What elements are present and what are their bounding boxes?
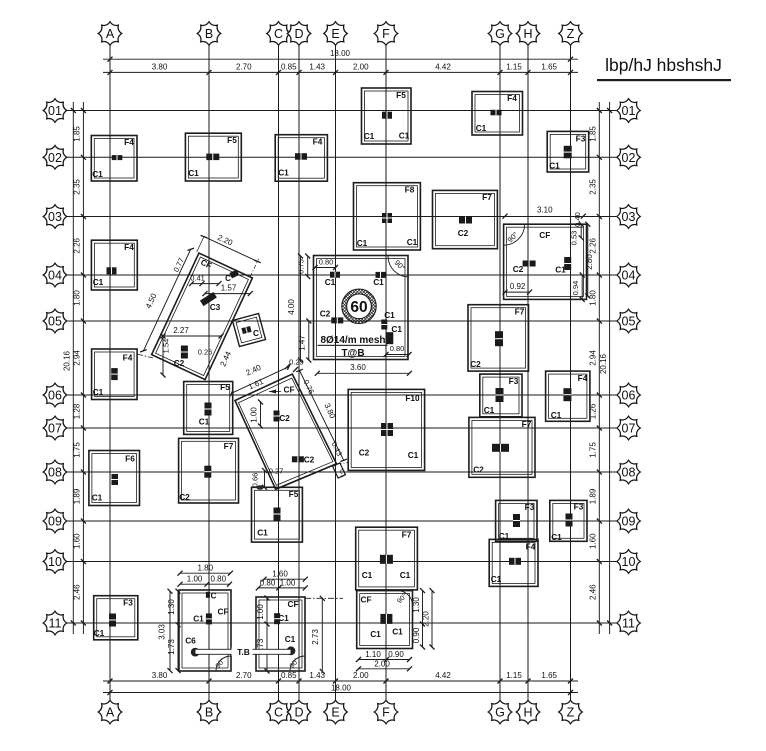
svg-text:lbp/hJ hbshshJ: lbp/hJ hbshshJ (605, 55, 722, 75)
dimension 2.20 right of F/11 footing (431, 591, 433, 647)
grid line axis D vertical (298, 46, 300, 701)
svg-text:0.94: 0.94 (571, 281, 580, 296)
svg-text:2.00: 2.00 (374, 659, 390, 668)
svg-text:2.26: 2.26 (73, 237, 82, 253)
column C2 at B/07-08 (204, 466, 211, 478)
column C1 at A/11 (109, 614, 116, 627)
axis bubble C top (267, 22, 291, 46)
svg-text:09: 09 (622, 515, 636, 529)
svg-text:1.54: 1.54 (162, 339, 171, 354)
footing CF at F/11 (357, 591, 413, 649)
svg-text:C1: C1 (370, 629, 381, 639)
axis bubble 05 left (43, 309, 67, 333)
dimension 0.92 (505, 291, 530, 293)
pile circle C1 (287, 646, 296, 655)
svg-text:H: H (523, 706, 532, 720)
svg-text:D: D (294, 706, 303, 720)
svg-text:Z: Z (567, 27, 575, 41)
dimension 0.80 bottom-right of mesh footing (386, 354, 409, 356)
grid line axis 08 horizontal (67, 471, 617, 473)
footing F6 at A/08 (89, 451, 140, 506)
footing CF mesh at E-F/04-05 (314, 256, 409, 360)
svg-text:F10: F10 (405, 393, 420, 403)
column C1 at G/06 (496, 388, 504, 402)
svg-text:2.73: 2.73 (311, 629, 320, 645)
svg-text:1.89: 1.89 (73, 488, 82, 504)
column C1 right in mesh footing (381, 320, 387, 330)
svg-text:09: 09 (48, 515, 62, 529)
svg-text:0.29: 0.29 (289, 357, 304, 366)
svg-text:C1: C1 (188, 168, 199, 178)
dimension chain left overall 20.16 (62, 102, 76, 634)
dimension 3.80 along quad right edge (296, 369, 347, 461)
column C1 at A/08 (112, 474, 119, 485)
footing F3 at Z/09 (550, 500, 587, 541)
svg-text:C: C (274, 706, 283, 720)
dash-dot extension from C-D footing corner (305, 597, 343, 599)
svg-text:1.60: 1.60 (272, 570, 288, 579)
grid line axis H vertical (527, 46, 529, 701)
column C2 upper in quad footing (274, 411, 280, 422)
svg-text:04: 04 (48, 269, 62, 283)
svg-text:G: G (495, 27, 505, 41)
column C2 in CF footing (523, 261, 536, 267)
footing F4 at D/02 (275, 135, 327, 182)
svg-text:20.16: 20.16 (599, 353, 608, 374)
footing F5 at B/02 (185, 133, 241, 181)
footing F8 at F/03 (354, 183, 421, 250)
title text lbp/hJ hbshshJ (597, 55, 731, 81)
axis bubble 11 right (617, 611, 641, 635)
svg-text:C1: C1 (400, 570, 411, 580)
axis bubble 02 right (617, 146, 641, 170)
footing F5 at F/01 (362, 88, 412, 144)
svg-text:F5: F5 (220, 382, 230, 392)
column C1 at Z/06 (563, 388, 571, 401)
axis bubble G top (488, 22, 512, 46)
svg-text:1.89: 1.89 (589, 488, 598, 504)
svg-text:F5: F5 (396, 90, 406, 100)
grid line axis 04 horizontal (67, 274, 617, 276)
svg-text:1.60: 1.60 (589, 533, 598, 549)
tie beam T.B between pile circles (195, 647, 291, 657)
svg-text:C1: C1 (551, 410, 562, 420)
svg-text:F4: F4 (313, 137, 323, 147)
svg-text:1.47: 1.47 (297, 335, 306, 351)
axis bubble F top (374, 22, 398, 46)
footing F7 at F/09-10 (356, 527, 418, 590)
svg-text:3.60: 3.60 (350, 363, 366, 372)
dimension 1.73 in C-D footing (266, 624, 268, 671)
dimension 2.80 (587, 224, 589, 296)
svg-text:C2: C2 (470, 359, 481, 369)
svg-text:0.27: 0.27 (269, 467, 284, 476)
grid line axis 11 horizontal (67, 622, 617, 624)
axis bubble 06 right (617, 383, 641, 407)
svg-text:2.00: 2.00 (353, 671, 369, 680)
axis bubble Z top (559, 22, 583, 46)
dimensions 1.00 0.80 above B footing (180, 583, 230, 585)
svg-text:0.80: 0.80 (260, 578, 276, 587)
svg-text:C1: C1 (476, 123, 487, 133)
svg-text:H: H (523, 27, 532, 41)
svg-text:2.94: 2.94 (73, 350, 82, 366)
svg-text:1.00: 1.00 (187, 575, 203, 584)
dimension 0.75 (307, 256, 309, 277)
svg-text:B: B (205, 27, 213, 41)
grid line axis Z vertical (570, 46, 572, 701)
svg-text:0.80: 0.80 (390, 344, 405, 353)
svg-text:3.03: 3.03 (158, 624, 167, 640)
svg-text:C2: C2 (320, 309, 331, 319)
axis bubble 10 left (43, 550, 67, 574)
svg-text:C1: C1 (92, 169, 103, 179)
svg-text:C1: C1 (549, 161, 560, 171)
tilted footing CF rotated 25deg (152, 253, 253, 379)
svg-text:F: F (382, 706, 390, 720)
column C1 top-left in mesh footing (330, 272, 340, 278)
svg-text:0.85: 0.85 (281, 671, 297, 680)
svg-text:C2: C2 (473, 465, 484, 475)
svg-text:C1: C1 (399, 131, 410, 141)
svg-text:11: 11 (49, 617, 62, 631)
svg-text:C1: C1 (325, 277, 336, 287)
axis bubble 01 left (43, 99, 67, 123)
svg-text:C1: C1 (193, 614, 204, 624)
mesh note text (318, 335, 388, 359)
footing F7 at G/03 (433, 190, 498, 248)
svg-text:2.70: 2.70 (236, 62, 252, 71)
svg-text:2.26: 2.26 (589, 237, 598, 253)
column C1 top-right in mesh footing (376, 272, 386, 278)
svg-text:0.85: 0.85 (281, 62, 297, 71)
svg-text:T.B: T.B (237, 647, 250, 657)
svg-text:4.42: 4.42 (435, 671, 451, 680)
svg-text:C1: C1 (551, 532, 562, 542)
svg-text:1.15: 1.15 (506, 62, 522, 71)
svg-text:2.94: 2.94 (589, 350, 598, 366)
axis bubble G bottom (488, 700, 512, 724)
grid line axis C vertical (278, 46, 280, 701)
footing F3 at Z/02 (547, 131, 589, 172)
svg-text:CF: CF (283, 385, 294, 395)
footing F4 at A/04 (91, 240, 137, 290)
svg-text:0.40: 0.40 (573, 212, 582, 227)
svg-text:3.80: 3.80 (152, 671, 168, 680)
axis bubble E top (324, 22, 348, 46)
svg-text:C1: C1 (392, 627, 403, 637)
svg-text:F7: F7 (224, 441, 234, 451)
dimension 2.73 right of C-D footing (321, 598, 323, 671)
column C2 lower in quad footing (292, 456, 304, 462)
svg-text:2.46: 2.46 (73, 584, 82, 600)
svg-text:C1: C1 (491, 574, 502, 584)
axis bubble F bottom (374, 700, 398, 724)
dimension 1.00 in quad footing (250, 400, 264, 429)
dimensions 1.10 0.90 below F/11 footing (359, 659, 410, 661)
column C2 in tilted footing (181, 346, 188, 359)
small rotated column box at quad corner near F10 (333, 463, 346, 478)
dimension 2.40 (230, 363, 290, 397)
dimension 3.03 left of B footing (169, 591, 171, 670)
svg-text:F8: F8 (405, 185, 415, 195)
svg-text:1.60: 1.60 (73, 533, 82, 549)
axis bubble C bottom (267, 700, 291, 724)
svg-text:0.53: 0.53 (569, 231, 578, 246)
svg-text:08: 08 (622, 466, 636, 480)
90 degree arc in C-D footing (290, 656, 305, 671)
footing CF at H-Z/03-04 (504, 224, 587, 299)
dimension 1.30 left of B footing (177, 591, 179, 625)
column in F/11 footing (380, 614, 392, 624)
svg-text:C2: C2 (174, 358, 185, 368)
footing CF at B/10-11 (179, 590, 231, 671)
svg-text:C1: C1 (408, 450, 419, 460)
small tilted square footing C (232, 313, 265, 346)
axis bubble 06 left (43, 383, 67, 407)
svg-text:F3: F3 (576, 134, 586, 144)
dimension 1.47 (308, 321, 310, 360)
svg-text:1.15: 1.15 (506, 671, 522, 680)
footing F7 at G/07-08 (469, 417, 535, 477)
90 degree arc in B footing (216, 656, 231, 671)
svg-text:C1: C1 (94, 628, 105, 638)
svg-text:2.20: 2.20 (421, 611, 430, 627)
column C1 at B/02 (206, 154, 219, 161)
svg-text:02: 02 (622, 151, 636, 165)
svg-text:0.80: 0.80 (211, 575, 227, 584)
svg-text:C1: C1 (484, 405, 495, 415)
svg-text:F7: F7 (515, 307, 525, 317)
axis bubble D bottom (287, 700, 311, 724)
column C1 in C-D footing (274, 613, 280, 624)
dimension 0.94 (581, 275, 583, 299)
footing F10 at E-F/06-07 (348, 389, 424, 470)
axis bubble Z bottom (559, 700, 583, 724)
pile circle C6 (191, 648, 200, 657)
svg-text:D: D (294, 27, 303, 41)
svg-text:2.46: 2.46 (589, 584, 598, 600)
axis bubble 07 right (617, 416, 641, 440)
svg-text:20.16: 20.16 (62, 350, 71, 371)
grid line axis 05 horizontal (67, 320, 617, 322)
svg-text:2.27: 2.27 (173, 326, 189, 335)
svg-text:F3: F3 (123, 598, 133, 608)
axis bubble 04 right (617, 263, 641, 287)
column C2 at G/07-08 (492, 444, 509, 452)
svg-text:3.80: 3.80 (152, 62, 168, 71)
dimension chain top segments (103, 62, 578, 75)
dimension 2.27 (161, 326, 224, 339)
svg-text:F3: F3 (525, 502, 535, 512)
svg-text:01: 01 (622, 104, 636, 118)
svg-text:18.00: 18.00 (331, 683, 352, 692)
column C1 at G-H/10 (509, 558, 521, 565)
dimension 3.10 on CF footing (503, 206, 586, 219)
svg-text:F4: F4 (578, 373, 588, 383)
column C1 at B/06 (205, 403, 212, 416)
svg-text:F4: F4 (124, 242, 134, 252)
dimension 2.00 below F/11 footing (359, 668, 410, 670)
dimension 2.20 along tilted top edge (197, 233, 261, 277)
svg-text:Z: Z (567, 706, 575, 720)
dimension chain right segments (589, 102, 602, 634)
svg-text:C6: C6 (185, 636, 196, 646)
svg-text:10: 10 (622, 555, 636, 569)
svg-text:8Ø14/m mesh: 8Ø14/m mesh (320, 335, 385, 346)
dimension 0.80 top-left of mesh footing (315, 267, 336, 269)
grid line axis 06 horizontal (67, 394, 617, 396)
axis bubble 02 left (43, 146, 67, 170)
svg-text:C1: C1 (285, 634, 296, 644)
axis bubble 09 left (43, 509, 67, 533)
small filled ellipse on F5 top edge (257, 485, 264, 490)
svg-text:E: E (331, 27, 339, 41)
svg-text:E: E (331, 706, 339, 720)
svg-text:C1: C1 (407, 237, 418, 247)
svg-text:C2: C2 (279, 413, 290, 423)
svg-text:03: 03 (622, 210, 636, 224)
axis bubble B bottom (197, 700, 221, 724)
axis bubble 08 right (617, 460, 641, 484)
footing CF at C-D/10-11 (256, 597, 305, 671)
svg-text:C1: C1 (199, 417, 210, 427)
hatched pile circle with 60 (291, 276, 428, 336)
footing F4 at A/02 (91, 136, 137, 182)
axis bubble 08 left (43, 460, 67, 484)
svg-text:F4: F4 (507, 93, 517, 103)
svg-text:CF: CF (539, 230, 550, 240)
column C2 at G/03 (459, 217, 472, 224)
svg-text:1.85: 1.85 (589, 126, 598, 142)
90 degree arc in F/11 footing (398, 591, 413, 606)
dimension 0.90 right of F/11 footing (422, 624, 424, 647)
grid line axis 09 horizontal (67, 520, 617, 522)
footing F4 at Z/06 (546, 371, 590, 421)
svg-text:04: 04 (622, 269, 636, 283)
footing F7 at G/05 (468, 305, 529, 371)
footing F4 at G/01 (472, 92, 523, 136)
dimension 1.30 right of F/11 footing (422, 591, 424, 624)
axis bubble B top (197, 22, 221, 46)
svg-text:06: 06 (622, 389, 636, 403)
axis bubble 03 left (43, 205, 67, 229)
dimension 1.54 (161, 334, 171, 378)
svg-text:1.28: 1.28 (73, 403, 82, 419)
svg-text:C2: C2 (304, 455, 315, 465)
svg-text:C1: C1 (362, 570, 373, 580)
column C2 at G/05 (495, 331, 503, 346)
svg-text:1.73: 1.73 (167, 639, 176, 655)
svg-text:A: A (106, 27, 115, 41)
svg-text:0.26: 0.26 (198, 348, 213, 357)
svg-text:C3: C3 (210, 302, 221, 312)
svg-text:1.65: 1.65 (541, 62, 557, 71)
column C1 at A/05-06 (111, 368, 118, 380)
column C1 in B footing (206, 613, 212, 624)
column C1 at D/02 (295, 153, 307, 160)
grid line axis 01 horizontal (67, 110, 617, 112)
axis bubble H top (516, 22, 540, 46)
90 degree arc at CF footing top-left corner (504, 224, 525, 245)
grid line axis 03 horizontal (67, 216, 617, 218)
dimension 4.00 (300, 256, 302, 360)
svg-text:60: 60 (350, 299, 367, 316)
svg-text:F6: F6 (125, 454, 135, 464)
axis bubble 01 right (617, 99, 641, 123)
footing F5 at C/08-09 (252, 487, 303, 542)
svg-text:2.35: 2.35 (589, 179, 598, 195)
svg-text:1.80: 1.80 (198, 564, 214, 573)
svg-text:01: 01 (48, 104, 62, 118)
svg-text:0.41: 0.41 (190, 274, 205, 283)
dimension 0.41 (189, 274, 222, 287)
svg-text:1.43: 1.43 (309, 62, 325, 71)
column C in small tilted footing (241, 326, 251, 334)
footing F3 at G/09 (496, 500, 537, 541)
column C3 in tilted footing (200, 292, 217, 306)
svg-text:C: C (274, 27, 283, 41)
svg-text:2.35: 2.35 (73, 179, 82, 195)
svg-text:1.85: 1.85 (73, 126, 82, 142)
axis bubble 11 left (43, 611, 67, 635)
column C1 at G/09 (513, 514, 520, 527)
column C1 at Z/09 (566, 514, 573, 527)
dash-dot extension at tilted footing lower-left (137, 354, 153, 358)
column C1 at C/08-09 (274, 508, 281, 521)
grid line axis A vertical (109, 46, 111, 701)
svg-text:0.90: 0.90 (412, 627, 421, 643)
svg-text:06: 06 (48, 389, 62, 403)
svg-text:F4: F4 (124, 137, 134, 147)
svg-text:1.75: 1.75 (589, 442, 598, 458)
svg-text:1.30: 1.30 (167, 599, 176, 615)
svg-text:G: G (495, 706, 505, 720)
svg-text:0.90: 0.90 (388, 650, 404, 659)
column C1 at F/01 (382, 112, 392, 119)
column C1 at G/01 (491, 110, 502, 116)
dimension 1.73 left of B footing (177, 625, 179, 671)
svg-text:07: 07 (48, 422, 62, 436)
dash-dot link from quad corner to F10 (337, 463, 350, 464)
svg-text:3.10: 3.10 (537, 206, 553, 215)
footing F3 at A/11 (94, 596, 138, 640)
svg-text:02: 02 (48, 151, 62, 165)
footing F4 at A/05-06 (92, 349, 138, 400)
svg-text:C1: C1 (373, 277, 384, 287)
svg-text:C2: C2 (359, 448, 370, 458)
svg-text:CF: CF (287, 599, 298, 609)
svg-text:4.00: 4.00 (287, 299, 296, 315)
grid line axis F vertical (385, 46, 387, 701)
svg-text:C: C (211, 592, 217, 601)
svg-text:F5: F5 (289, 489, 299, 499)
column C2 left in mesh footing (331, 317, 343, 323)
svg-text:F7: F7 (482, 192, 492, 202)
svg-text:F3: F3 (509, 376, 519, 386)
svg-text:C1: C1 (364, 131, 375, 141)
column at F/07 (381, 423, 393, 436)
axis bubble 07 left (43, 416, 67, 440)
footing F4 at G-H/10 (489, 539, 538, 586)
svg-text:T@B: T@B (341, 348, 364, 359)
svg-text:1.30: 1.30 (412, 597, 421, 613)
svg-text:C2: C2 (458, 228, 469, 238)
svg-text:05: 05 (622, 315, 636, 329)
grid line axis 02 horizontal (67, 156, 617, 158)
column at F/03 (382, 213, 392, 223)
svg-text:1.65: 1.65 (541, 671, 557, 680)
